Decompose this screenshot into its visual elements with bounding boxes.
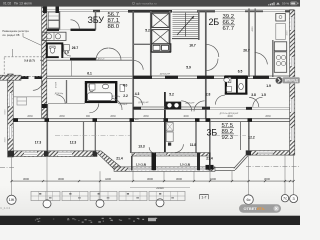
svg-text:6000: 6000 [5, 109, 7, 115]
svg-text:67.7: 67.7 [223, 26, 234, 32]
svg-text:88.0: 88.0 [108, 24, 120, 30]
svg-text:4.3: 4.3 [135, 92, 140, 96]
svg-text:59 %: 59 % [282, 2, 289, 6]
svg-text:1.9: 1.9 [64, 50, 69, 54]
svg-text:12.2: 12.2 [248, 136, 255, 140]
svg-text:2630: 2630 [27, 115, 33, 118]
svg-text:см. раздел ОВ: см. раздел ОВ [2, 33, 19, 37]
svg-text:ОТВЕТИТЬ: ОТВЕТИТЬ [244, 206, 265, 211]
svg-text:16.7: 16.7 [189, 44, 196, 48]
svg-text:ДГ21-9: ДГ21-9 [98, 59, 106, 61]
svg-text:6.5: 6.5 [238, 69, 243, 73]
svg-text:2630: 2630 [110, 115, 116, 118]
svg-text:1.5: 1.5 [261, 93, 266, 97]
svg-text:2630: 2630 [143, 115, 149, 118]
svg-text:17.3: 17.3 [35, 141, 42, 145]
svg-text:1,5 (1,8): 1,5 (1,8) [180, 162, 190, 166]
svg-text:3000: 3000 [5, 137, 7, 143]
svg-text:11.8: 11.8 [190, 143, 196, 147]
svg-text:4000: 4000 [287, 30, 289, 36]
svg-text:4000: 4000 [227, 115, 233, 118]
svg-text:6с: 6с [246, 197, 250, 202]
svg-text:ДП2(4)-НР: ДП2(4)-НР [138, 102, 149, 104]
svg-text:3Б: 3Б [207, 127, 218, 137]
svg-text:1Ж: 1Ж [9, 197, 15, 202]
svg-text:13.3: 13.3 [138, 145, 145, 149]
svg-text:ВПЕРЕД: ВПЕРЕД [285, 79, 299, 83]
svg-text:6.1: 6.1 [87, 72, 92, 76]
svg-text:ЗБУ: ЗБУ [88, 15, 105, 25]
svg-text:4000: 4000 [252, 26, 254, 32]
svg-text:5.9: 5.9 [186, 65, 191, 69]
svg-text:3.8: 3.8 [251, 93, 256, 97]
svg-text:ДВ(3)-НР: ДВ(3)-НР [186, 103, 196, 105]
svg-text:3000: 3000 [176, 177, 182, 181]
svg-text:1,5 (1,8): 1,5 (1,8) [136, 162, 146, 166]
svg-text:Пн 13 июля: Пн 13 июля [14, 2, 32, 6]
svg-text:3000: 3000 [58, 177, 64, 181]
svg-text:4000: 4000 [183, 115, 189, 118]
svg-text:ДП3(3)-НР: ДП3(3)-НР [160, 73, 171, 75]
svg-text:apk-mosalka.ru: apk-mosalka.ru [136, 2, 157, 6]
svg-text:2.8: 2.8 [206, 93, 211, 97]
svg-text:21.4: 21.4 [116, 157, 123, 161]
svg-text:2630: 2630 [265, 115, 271, 118]
svg-text:4200: 4200 [105, 177, 111, 181]
svg-text:ДГ(4)-Нр: ДГ(4)-Нр [112, 96, 121, 98]
svg-text:4200: 4200 [210, 177, 216, 181]
svg-text:КУХНЯ: КУХНЯ [56, 81, 58, 88]
svg-text:01:02: 01:02 [3, 2, 11, 6]
svg-text:26.7: 26.7 [72, 46, 79, 50]
svg-text:ДГ(4)-Нр: ДГ(4)-Нр [55, 93, 64, 95]
svg-text:5.2: 5.2 [169, 93, 174, 97]
svg-text:5.2: 5.2 [145, 29, 150, 33]
svg-text:92.3: 92.3 [222, 135, 234, 141]
svg-text:900: 900 [86, 115, 91, 118]
svg-text:К_2-3-3: К_2-3-3 [1, 206, 11, 210]
svg-text:1.9: 1.9 [266, 84, 271, 88]
svg-text:3000: 3000 [147, 177, 153, 181]
svg-text:ДП1Н-Р: ДП1Н-Р [120, 104, 128, 106]
svg-text:5.9 (5.7): 5.9 (5.7) [24, 58, 34, 62]
svg-text:2Б: 2Б [209, 17, 220, 27]
svg-text:21.4: 21.4 [206, 157, 213, 161]
svg-text:АВЛ: АВЛ [135, 118, 140, 121]
svg-text:2.2: 2.2 [123, 94, 128, 98]
svg-text:3000: 3000 [264, 177, 270, 181]
svg-text:1-Г: 1-Г [201, 195, 206, 199]
svg-text:4.0: 4.0 [123, 83, 128, 87]
svg-text:3000: 3000 [23, 177, 29, 181]
svg-text:2630: 2630 [59, 115, 65, 118]
svg-text:7с: 7с [283, 196, 287, 201]
svg-text:3: 3 [293, 196, 295, 201]
svg-text:12.3: 12.3 [70, 141, 77, 145]
svg-text:26.7: 26.7 [243, 49, 250, 53]
svg-text:Размещение регистра: Размещение регистра [2, 29, 29, 33]
svg-text:ДГ21-9л ДП2(4)-НР: ДГ21-9л ДП2(4)-НР [220, 113, 239, 115]
svg-text:20400: 20400 [156, 186, 164, 190]
